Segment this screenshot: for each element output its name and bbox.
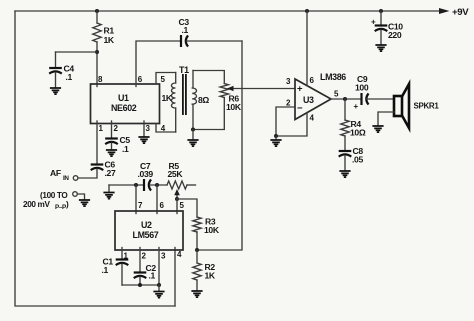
svg-text:8: 8 (98, 75, 103, 84)
node junction pin3-gnd (157, 283, 161, 287)
svg-text:10K: 10K (226, 102, 242, 112)
svg-text:.27: .27 (105, 168, 116, 178)
svg-text:): ) (66, 200, 69, 209)
svg-text:U1: U1 (118, 93, 129, 103)
ground R2 (191, 291, 202, 297)
wire R4 to C8 (344, 136, 346, 150)
wire U1 pin6 to C3 (136, 41, 180, 87)
ground C10 (375, 45, 386, 51)
wire U3 pin6 to rail (306, 11, 308, 86)
svg-text:10Ω: 10Ω (350, 128, 366, 138)
svg-text:.1: .1 (66, 72, 73, 82)
svg-text:3: 3 (286, 77, 291, 86)
wire U2 pin2 to C2 (139, 248, 141, 272)
svg-text:.1: .1 (122, 144, 129, 154)
pin 8 label U1 (98, 75, 103, 84)
capacitor C9 (354, 74, 369, 111)
ground U1 pin3 (138, 137, 149, 143)
ground C5 (106, 150, 117, 156)
svg-text:.1: .1 (102, 265, 109, 275)
resistor R4 (341, 119, 366, 138)
resistor R3 (193, 217, 220, 236)
wire ground junction row (122, 284, 159, 286)
svg-text:.1: .1 (182, 25, 189, 35)
wire C10 to ground (380, 30, 382, 45)
pin 4 label U2 (177, 250, 182, 259)
wire wiper junction to R3 (177, 199, 197, 217)
svg-text:100: 100 (355, 83, 369, 93)
pin 2 label U2 (142, 252, 147, 261)
svg-text:1: 1 (99, 124, 104, 133)
svg-text:AF: AF (50, 168, 61, 178)
wire U2 pin5 (177, 199, 185, 214)
svg-text:6: 6 (160, 201, 165, 210)
pin 3 label U1 (146, 124, 151, 133)
wire U1 pin3 to ground (143, 121, 145, 137)
wire rail to R1 (96, 11, 98, 23)
svg-text:5: 5 (334, 90, 339, 99)
svg-text:220: 220 (388, 30, 402, 40)
wire pin2 loop ground stub (275, 136, 277, 140)
svg-text:P–P: P–P (55, 204, 66, 211)
svg-text:NE602: NE602 (111, 103, 137, 113)
wire U2 pin4 to bottom rail (174, 248, 176, 307)
wire R1 to U1 pin8 (96, 42, 98, 87)
svg-text:25K: 25K (168, 169, 184, 179)
pin 1 label U2 (124, 252, 129, 261)
ground U2 pin3 (153, 292, 164, 298)
wire junction to ground (158, 285, 160, 291)
resistor R6 pot (220, 84, 242, 113)
svg-text:1K: 1K (104, 35, 115, 45)
wire left feedback loop (15, 11, 175, 306)
wire R5 wiper (174, 189, 180, 199)
svg-text:−: − (297, 103, 303, 114)
svg-text:U3: U3 (303, 95, 314, 105)
pin 3 label U3 (286, 77, 291, 86)
resistor R5 pot (167, 161, 196, 189)
wire C9 to speaker (367, 98, 395, 100)
transformer T1 core (179, 65, 189, 115)
wire secondary bottom to R6 (193, 98, 224, 130)
node junction pin7 (134, 183, 138, 187)
transformer T1 primary (162, 73, 176, 133)
node junction output (343, 97, 347, 101)
wire junction to R2 (196, 250, 198, 263)
wire U2 pin3 down (158, 248, 160, 286)
node junction C2-gnd (138, 283, 142, 287)
wire R6 wiper to U3 pin3 (227, 86, 295, 92)
ground C4 (50, 88, 61, 94)
pin 2 label U3 (286, 99, 291, 108)
wire U3 pin2 loop (276, 107, 307, 136)
svg-text:2: 2 (114, 124, 119, 133)
capacitor C3 (179, 17, 190, 47)
ground T1 secondary (187, 140, 198, 146)
resistor R2 (193, 262, 216, 281)
svg-text:10K: 10K (204, 225, 220, 235)
node junction secondary-ground (191, 128, 195, 132)
svg-text:LM386: LM386 (320, 72, 346, 82)
pin 4 label U3 (310, 114, 315, 123)
svg-text:(100 TO: (100 TO (40, 191, 68, 200)
svg-text:5: 5 (161, 75, 166, 84)
wire U1 pin1 to C6 (96, 121, 98, 163)
wire C1 to junction (121, 264, 123, 285)
wire C5 to ground (111, 143, 113, 150)
wire right riser to divider (197, 41, 242, 250)
svg-text:6: 6 (138, 75, 143, 84)
op-amp U3 triangle (295, 79, 331, 120)
svg-text:IN: IN (63, 175, 69, 182)
svg-text:1K: 1K (205, 271, 216, 281)
svg-text:7: 7 (138, 201, 143, 210)
ground C7 wire (103, 185, 114, 199)
node junction wiper-pin5 (175, 197, 179, 201)
svg-text:2: 2 (142, 252, 147, 261)
wire U1 pin5 to T1 primary (156, 73, 176, 85)
pin 5 label U3 (334, 90, 339, 99)
node junction R1-C4 (95, 50, 99, 54)
svg-text:.1: .1 (149, 271, 156, 281)
IC U1 NE602 (91, 84, 160, 124)
capacitor C4 (49, 64, 74, 83)
svg-text:4: 4 (310, 114, 315, 123)
svg-text:6: 6 (310, 76, 315, 85)
wire C3 to right riser (187, 40, 243, 42)
node U3 LM386 label (320, 72, 346, 82)
node junction rail-C10 (379, 9, 383, 13)
svg-text:+9V: +9V (452, 7, 469, 18)
svg-text:1K: 1K (162, 93, 173, 103)
svg-text:SPKR1: SPKR1 (414, 102, 440, 111)
capacitor C1 (102, 257, 129, 276)
capacitor C7 (138, 161, 154, 191)
capacitor C8 (339, 146, 364, 165)
pin 3 label U2 (161, 252, 166, 261)
capacitor C2 (134, 263, 157, 281)
ground C8 (339, 171, 350, 177)
wire junction to C4 (56, 52, 98, 67)
svg-text:3: 3 (146, 124, 151, 133)
wire C8 to ground (344, 156, 346, 171)
svg-text:.039: .039 (138, 169, 154, 179)
capacitor C10 (371, 18, 403, 41)
wire U3 output (331, 98, 360, 100)
node junction pin6 (155, 183, 159, 187)
wire C4 to ground (55, 73, 57, 88)
wire secondary top to R6 (193, 71, 224, 84)
svg-text:3: 3 (161, 252, 166, 261)
wire U1 pin4 to T1 primary bottom (156, 124, 176, 133)
wire +9V top rail (15, 10, 440, 12)
wire U2 pin7 (136, 185, 143, 214)
wire C7 to pin6 (150, 184, 167, 186)
pin 1 label U1 (99, 124, 104, 133)
wire R2 to ground (196, 280, 198, 291)
wire rail to C10 (380, 11, 382, 24)
pin 6 label U3 (310, 76, 315, 85)
svg-text:200 mV: 200 mV (23, 200, 50, 209)
svg-text:LM567: LM567 (133, 230, 159, 240)
resistor R1 (93, 23, 115, 45)
node +9V supply arrow (439, 7, 469, 18)
svg-text:2: 2 (286, 99, 291, 108)
node junction rail-R1 (95, 9, 99, 13)
svg-text:4: 4 (177, 250, 182, 259)
svg-text:U2: U2 (141, 220, 152, 230)
wire U2 pin1 to C1 (121, 248, 123, 259)
IC U2 LM567 (115, 211, 183, 250)
ground input terminal (79, 200, 90, 206)
wire R3 to junction (196, 232, 198, 250)
wire U1 pin2 to C5 (111, 121, 113, 137)
svg-text:5: 5 (180, 201, 185, 210)
node AF input terminal (50, 168, 78, 182)
svg-text:+: + (354, 102, 359, 111)
wire secondary to ground (192, 130, 194, 140)
node junction pin2-ground (274, 134, 278, 138)
wire terminal to ground (77, 194, 84, 200)
wire ground to U2 pin7 (109, 184, 143, 186)
wire output to R4 (344, 99, 346, 120)
speaker SPKR1 (394, 84, 439, 128)
pin 4 label U1 (161, 124, 166, 133)
svg-text:+: + (371, 18, 376, 27)
svg-text:R1: R1 (104, 26, 115, 36)
wire speaker to ground (378, 112, 394, 126)
wire C2 to junction (139, 277, 141, 285)
transformer T1 secondary (192, 71, 209, 130)
node signal level terminal (23, 191, 77, 211)
ground U3 (270, 140, 281, 146)
wire U2 pin6 (157, 185, 165, 214)
svg-text:8Ω: 8Ω (198, 95, 209, 105)
wire C6 to AF terminal (78, 169, 97, 178)
ground speaker (372, 126, 383, 132)
svg-text:+: + (297, 84, 303, 95)
svg-text:.05: .05 (352, 155, 363, 165)
pin 6 label U1 (138, 75, 143, 84)
node junction rail-pin6 (305, 9, 309, 13)
pin 2 label U1 (114, 124, 119, 133)
svg-text:T1: T1 (179, 65, 189, 75)
capacitor C5 (105, 135, 130, 154)
node junction R3-R2 (195, 248, 199, 252)
capacitor C6 (91, 160, 116, 179)
